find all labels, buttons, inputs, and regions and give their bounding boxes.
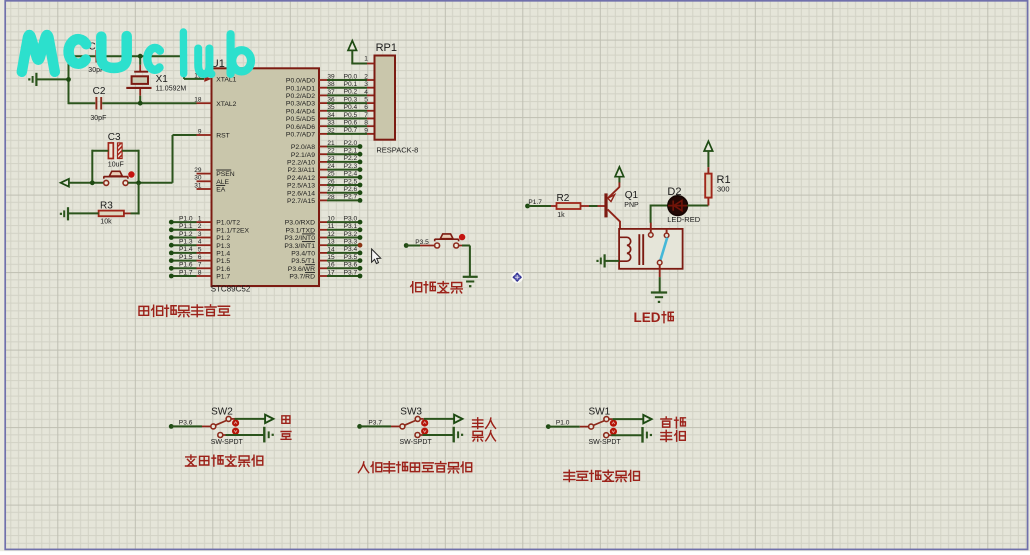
svg-text:9: 9 (198, 128, 202, 135)
power arrow (reset, points left) (61, 179, 69, 187)
relay coil (619, 237, 631, 261)
push button (reset) (104, 176, 128, 178)
svg-text:P1.1/T2EX: P1.1/T2EX (216, 227, 249, 234)
svg-text:35: 35 (327, 104, 335, 111)
svg-text:2: 2 (198, 223, 202, 230)
svg-text:4: 4 (198, 239, 202, 246)
svg-text:6: 6 (364, 104, 368, 111)
svg-text:P0.6: P0.6 (344, 120, 358, 127)
svg-text:RST: RST (216, 133, 230, 140)
svg-text:7: 7 (198, 262, 202, 269)
svg-text:XTAL2: XTAL2 (216, 101, 236, 108)
svg-text:SW-SPDT: SW-SPDT (400, 439, 433, 446)
transistor Q1 PNP (604, 193, 607, 217)
label 独立按键 (red) (411, 282, 422, 293)
push button (independent key) (435, 238, 459, 240)
node P3.5 (404, 243, 409, 248)
svg-text:P3.6: P3.6 (344, 262, 358, 269)
wire RST riser (172, 135, 174, 183)
svg-text:3: 3 (364, 81, 368, 88)
label 光照触发模块 (red) (186, 455, 197, 466)
svg-text:P2.3: P2.3 (344, 163, 358, 170)
MCUclub watermark logo (22, 32, 251, 74)
svg-text:P0.7/AD7: P0.7/AD7 (286, 132, 315, 139)
svg-text:D2: D2 (667, 186, 681, 198)
svg-text:17: 17 (327, 269, 335, 276)
svg-text:27: 27 (327, 186, 335, 193)
svg-text:P2.3/A11: P2.3/A11 (288, 167, 316, 174)
svg-text:P0.5: P0.5 (344, 112, 358, 119)
label 声音触发模块 (red) (564, 470, 575, 481)
resistor R1 (705, 174, 711, 198)
origin marker (511, 271, 523, 283)
label 声响 (red) (661, 430, 672, 441)
svg-text:Q1: Q1 (625, 190, 639, 201)
label 无人 (red) (472, 418, 483, 429)
svg-text:9: 9 (364, 127, 368, 134)
svg-text:39: 39 (327, 73, 335, 80)
resistor R2 (557, 203, 581, 209)
svg-text:P1.5: P1.5 (179, 254, 193, 261)
svg-text:P0.0: P0.0 (344, 73, 358, 80)
power arrow (SW3) (454, 415, 462, 423)
svg-text:P0.2/AD2: P0.2/AD2 (286, 93, 315, 100)
svg-text:RESPACK-8: RESPACK-8 (376, 145, 418, 154)
svg-text:P0.4: P0.4 (344, 104, 358, 111)
svg-text:P2.6/A14: P2.6/A14 (287, 190, 315, 197)
ground (relay common) (651, 291, 667, 293)
svg-text:P3.5/T1: P3.5/T1 (291, 258, 315, 265)
svg-text:P2.2: P2.2 (344, 155, 358, 162)
svg-text:P0.3: P0.3 (344, 96, 358, 103)
svg-text:P3.2/INT0: P3.2/INT0 (284, 235, 315, 242)
svg-text:13: 13 (327, 239, 335, 246)
svg-text:36: 36 (327, 97, 335, 104)
wire SW3 top to power arrow (424, 418, 455, 420)
svg-text:P1.4: P1.4 (179, 246, 193, 253)
svg-text:P2.4/A12: P2.4/A12 (287, 175, 315, 182)
node P1.0 (546, 424, 551, 429)
svg-text:P1.3: P1.3 (216, 243, 230, 250)
resistor pack RP1 RESPACK-8 (375, 56, 396, 140)
svg-text:P0.1: P0.1 (344, 81, 358, 88)
svg-text:22: 22 (327, 148, 335, 155)
wire arrow to button (69, 182, 104, 184)
op-amp U1 chip body STC89C52 (212, 68, 320, 286)
svg-text:29: 29 (194, 167, 202, 174)
wire C3 loop (92, 150, 108, 152)
relay body (619, 229, 683, 269)
switch SW1 (593, 421, 604, 426)
wire P3.6 to SW2 (171, 425, 202, 427)
power arrow RP1 (348, 41, 357, 51)
wire SW2 top to power arrow (235, 418, 266, 420)
svg-text:P3.3/INT1: P3.3/INT1 (284, 243, 315, 250)
svg-text:PNP: PNP (624, 202, 639, 209)
wire SW2 bottom to ground (226, 434, 265, 436)
svg-text:25: 25 (327, 171, 335, 178)
svg-text:LED: LED (634, 310, 661, 325)
svg-text:18: 18 (194, 97, 202, 104)
svg-text:10uF: 10uF (108, 161, 124, 168)
node P3.6 (169, 424, 174, 429)
svg-text:P3.0: P3.0 (344, 215, 358, 222)
label 亮 (red) (281, 432, 291, 440)
svg-text:33: 33 (327, 120, 335, 127)
svg-text:34: 34 (327, 112, 335, 119)
svg-text:P1.2: P1.2 (179, 231, 193, 238)
svg-text:P2.1: P2.1 (344, 148, 358, 155)
mouse cursor (372, 249, 381, 264)
svg-text:P1.1: P1.1 (179, 223, 193, 230)
capacitor C2 (95, 97, 97, 110)
wire P3.7 to SW3 (360, 425, 391, 427)
svg-text:32: 32 (327, 127, 335, 134)
svg-text:C3: C3 (108, 132, 121, 143)
svg-text:1k: 1k (557, 212, 565, 219)
svg-text:11.0592M: 11.0592M (156, 86, 187, 93)
svg-text:P1.0: P1.0 (179, 215, 193, 222)
ground (SW1) (641, 427, 643, 443)
LED D2 (651, 205, 669, 207)
svg-text:P0.1/AD1: P0.1/AD1 (286, 85, 315, 92)
svg-text:11: 11 (328, 223, 335, 230)
svg-text:300: 300 (717, 185, 730, 194)
wire D2 to R1 (687, 205, 708, 207)
svg-text:R3: R3 (100, 201, 113, 212)
node crystal bottom (138, 101, 143, 106)
svg-text:38: 38 (327, 81, 335, 88)
svg-text:P2.0/A8: P2.0/A8 (291, 144, 315, 151)
svg-text:C2: C2 (93, 86, 106, 97)
resistor R3 (99, 211, 124, 217)
wire SW1 top to power arrow (613, 418, 644, 420)
wire ground to junction (37, 78, 69, 80)
svg-text:21: 21 (327, 140, 335, 147)
wire SW1 bottom to ground (611, 434, 642, 436)
wire R2 to Q1 base (581, 205, 590, 207)
svg-text:P3.7: P3.7 (344, 269, 358, 276)
svg-text:P3.2: P3.2 (344, 231, 358, 238)
svg-text:24: 24 (327, 163, 335, 170)
ground (SW2) (263, 427, 265, 443)
pin RST stub (197, 134, 212, 136)
node junction left (66, 77, 71, 82)
wire crystal bottom stem (139, 89, 141, 96)
svg-text:P3.0/RXD: P3.0/RXD (285, 220, 315, 227)
svg-text:P1.6: P1.6 (179, 262, 193, 269)
label 暗 (red) (282, 416, 290, 424)
node P3.7 (357, 424, 362, 429)
wire C2 row to XTAL2 (69, 102, 96, 104)
svg-text:P3.4: P3.4 (344, 246, 358, 253)
svg-text:P0.4/AD4: P0.4/AD4 (286, 108, 315, 115)
svg-text:P3.4/T0: P3.4/T0 (291, 251, 315, 258)
svg-text:P2.1/A9: P2.1/A9 (291, 152, 315, 159)
wire relay common to ground (659, 265, 661, 277)
power arrow R1 (704, 141, 713, 151)
svg-text:P1.2: P1.2 (216, 235, 230, 242)
wire C1 row to XTAL1 (69, 55, 96, 57)
ground (SW3) (453, 427, 455, 443)
svg-text:P2.7: P2.7 (344, 194, 358, 201)
capacitor C1 (95, 50, 97, 63)
svg-text:1: 1 (198, 216, 202, 223)
pins PSEN ALE EA (197, 173, 212, 175)
svg-text:EA: EA (216, 187, 226, 194)
ground (R3) (67, 207, 69, 220)
svg-text:X1: X1 (156, 74, 169, 85)
label 单片机最小系统 (red) (139, 306, 149, 315)
power arrow Q1 emitter (615, 167, 624, 177)
svg-text:R2: R2 (557, 193, 570, 204)
svg-text:P1.7: P1.7 (216, 274, 230, 281)
svg-text:P1.3: P1.3 (179, 239, 193, 246)
svg-text:P3.1/TXD: P3.1/TXD (286, 227, 316, 234)
svg-text:31: 31 (194, 182, 202, 189)
svg-text:2: 2 (364, 73, 368, 80)
switch SW2 (216, 420, 227, 425)
svg-text:P2.2/A10: P2.2/A10 (287, 160, 315, 167)
crystal X1 (134, 71, 148, 73)
label 有人 (red) (472, 431, 482, 441)
svg-text:P2.0: P2.0 (344, 140, 358, 147)
wire button to ground (459, 245, 470, 247)
svg-text:4: 4 (364, 89, 368, 96)
svg-text:P1.5: P1.5 (216, 258, 230, 265)
svg-text:30: 30 (194, 175, 202, 182)
svg-text:5: 5 (198, 246, 202, 253)
relay contact pins (650, 223, 652, 233)
wire RP1 pin 1 (351, 50, 353, 63)
power arrow (SW1) (643, 415, 651, 423)
wire R3 to junction (124, 212, 131, 214)
svg-text:P3.3: P3.3 (344, 239, 358, 246)
svg-text:PSEN: PSEN (216, 171, 235, 178)
pins P1.0-P1.7 with net labels (171, 221, 196, 223)
node P1.7 (525, 204, 530, 209)
svg-text:STC89C52: STC89C52 (211, 285, 251, 294)
svg-text:P0.6/AD6: P0.6/AD6 (286, 124, 315, 131)
svg-text:XTAL1: XTAL1 (216, 77, 236, 84)
wire P1.0 to SW1 (548, 426, 580, 428)
wire SW3 bottom to ground (423, 434, 454, 436)
svg-text:P1.0/T2: P1.0/T2 (216, 220, 240, 227)
svg-text:3: 3 (198, 231, 202, 238)
label 人体热释电感应模块 (red) (358, 462, 368, 473)
relay lever (cyan) (660, 238, 667, 261)
ground (independent key) (463, 276, 478, 278)
node crystal top (138, 54, 143, 59)
switch SW3 (405, 420, 416, 425)
ground (relay coil) (603, 254, 605, 267)
pins P0.0-P0.7 to RP1 (319, 79, 327, 81)
pins P2.0-P2.7 with net labels (319, 146, 327, 148)
svg-text:10k: 10k (100, 219, 112, 226)
wire left vertical (68, 55, 70, 104)
svg-text:LED-RED: LED-RED (667, 215, 701, 224)
svg-text:P0.0/AD0: P0.0/AD0 (286, 78, 315, 85)
svg-text:P2.7/A15: P2.7/A15 (287, 198, 315, 205)
svg-text:15: 15 (327, 254, 335, 261)
power arrow (SW2) (265, 415, 273, 423)
node reset right (136, 180, 141, 185)
svg-text:P2.4: P2.4 (344, 171, 358, 178)
svg-text:P3.5: P3.5 (344, 254, 358, 261)
svg-text:28: 28 (327, 194, 335, 201)
svg-text:14: 14 (327, 246, 335, 253)
svg-text:6: 6 (198, 254, 202, 261)
svg-text:P2.5/A13: P2.5/A13 (287, 183, 315, 190)
svg-text:5: 5 (364, 97, 368, 104)
wire crystal top stem (139, 56, 141, 65)
svg-text:P1.7: P1.7 (179, 269, 193, 276)
svg-text:SW-SPDT: SW-SPDT (589, 439, 622, 446)
svg-text:37: 37 (327, 89, 335, 96)
svg-text:8: 8 (364, 120, 368, 127)
svg-text:P0.2: P0.2 (344, 89, 358, 96)
svg-text:P0.7: P0.7 (344, 127, 358, 134)
svg-text:P0.5/AD5: P0.5/AD5 (286, 116, 315, 123)
pin XTAL2 stub (197, 102, 212, 104)
svg-text:8: 8 (198, 269, 202, 276)
svg-text:P2.5: P2.5 (344, 178, 358, 185)
pins P3.0-P3.7 with net labels (319, 221, 327, 223)
svg-text:16: 16 (327, 262, 335, 269)
ground (crystal) (35, 73, 37, 86)
svg-text:SW-SPDT: SW-SPDT (211, 439, 244, 446)
label 安静 (red) (661, 417, 672, 427)
wire button to RST riser (128, 182, 173, 184)
wire ground to R3 (69, 212, 99, 214)
svg-text:P0.3/AD3: P0.3/AD3 (286, 101, 315, 108)
svg-text:10: 10 (327, 216, 335, 223)
svg-text:30pF: 30pF (90, 115, 106, 122)
svg-text:7: 7 (364, 112, 368, 119)
pin XTAL1 (204, 76, 211, 82)
svg-text:P3.6/WR: P3.6/WR (288, 266, 315, 273)
capacitor C3 (electrolytic) (108, 143, 113, 159)
svg-text:23: 23 (327, 155, 335, 162)
svg-text:1: 1 (364, 56, 368, 63)
svg-text:ALE: ALE (216, 179, 229, 186)
svg-text:P1.4: P1.4 (216, 251, 230, 258)
svg-text:P3.7/RD: P3.7/RD (289, 274, 315, 281)
svg-text:12: 12 (327, 231, 335, 238)
node reset left (90, 180, 95, 185)
wire P1.7 to R2 (528, 205, 552, 207)
svg-text:RP1: RP1 (376, 42, 397, 54)
svg-text:P3.1: P3.1 (344, 223, 358, 230)
svg-text:26: 26 (327, 178, 335, 185)
svg-text:P1.6: P1.6 (216, 266, 230, 273)
wire P3.5 to button (406, 245, 434, 247)
svg-text:P1.7: P1.7 (528, 199, 542, 206)
svg-text:P2.6: P2.6 (344, 186, 358, 193)
